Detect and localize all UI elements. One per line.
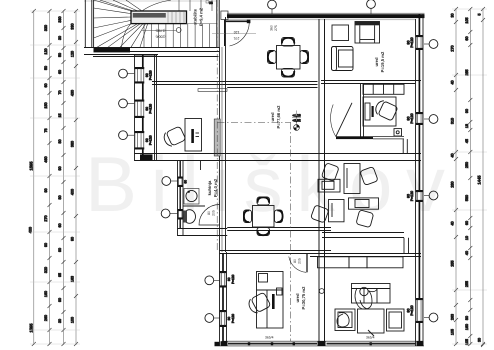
- svg-text:90: 90: [58, 248, 62, 252]
- svg-text:(1780): (1780): [156, 29, 166, 33]
- svg-text:P=120: P=120: [410, 191, 414, 201]
- svg-text:P=120: P=120: [231, 314, 235, 324]
- svg-text:40: 40: [451, 80, 455, 84]
- svg-text:95: 95: [58, 273, 62, 277]
- svg-text:40: 40: [451, 153, 455, 157]
- svg-text:P=77,66 m2: P=77,66 m2: [276, 105, 281, 129]
- svg-text:80: 80: [58, 139, 62, 143]
- svg-text:163: 163: [71, 276, 75, 282]
- svg-text:285: 285: [465, 69, 469, 75]
- svg-text:120: 120: [71, 51, 75, 57]
- svg-text:kuhinja: kuhinja: [207, 180, 212, 195]
- svg-text:50: 50: [44, 66, 48, 70]
- svg-text:P=19,5 m2: P=19,5 m2: [380, 51, 385, 72]
- svg-text:60: 60: [58, 70, 62, 74]
- svg-text:P=120: P=120: [410, 37, 414, 47]
- svg-text:263: 263: [451, 314, 455, 320]
- svg-text:60: 60: [465, 36, 469, 40]
- svg-text:08: 08: [209, 1, 213, 5]
- svg-text:90: 90: [71, 237, 75, 241]
- svg-text:105: 105: [465, 17, 469, 23]
- svg-text:P=120: P=120: [410, 305, 414, 315]
- svg-text:360: 360: [270, 25, 274, 31]
- svg-text:330: 330: [71, 23, 75, 29]
- svg-text:250: 250: [465, 162, 469, 168]
- svg-text:60: 60: [44, 83, 48, 87]
- svg-text:1445: 1445: [477, 175, 482, 185]
- svg-text:30: 30: [58, 36, 62, 40]
- svg-text:90: 90: [58, 166, 62, 170]
- svg-text:380: 380: [71, 141, 75, 147]
- svg-text:30: 30: [478, 338, 482, 342]
- svg-text:330: 330: [44, 25, 48, 31]
- svg-text:15: 15: [58, 113, 62, 117]
- svg-text:275: 275: [234, 36, 240, 40]
- svg-text:150: 150: [44, 102, 48, 108]
- svg-text:365/4: 365/4: [366, 336, 375, 340]
- svg-text:+2,92: +2,92: [292, 119, 301, 123]
- svg-text:105: 105: [451, 329, 455, 335]
- svg-text:50: 50: [58, 53, 62, 57]
- svg-text:60: 60: [58, 223, 62, 227]
- svg-text:5: 5: [478, 13, 482, 15]
- svg-text:160: 160: [44, 291, 48, 297]
- svg-text:P=120: P=120: [149, 135, 153, 145]
- svg-text:275: 275: [274, 25, 278, 31]
- svg-text:400: 400: [71, 189, 75, 195]
- svg-text:120: 120: [234, 30, 240, 34]
- svg-text:90: 90: [44, 243, 48, 247]
- svg-text:430: 430: [71, 90, 75, 96]
- svg-text:205: 205: [212, 210, 216, 216]
- svg-text:1595: 1595: [29, 161, 34, 171]
- svg-text:460: 460: [44, 156, 48, 162]
- svg-text:120: 120: [44, 48, 48, 54]
- svg-text:P=4,0 m2: P=4,0 m2: [213, 178, 218, 197]
- svg-text:40: 40: [451, 221, 455, 225]
- svg-text:40: 40: [465, 251, 469, 255]
- svg-text:310: 310: [451, 118, 455, 124]
- svg-text:P=120: P=120: [410, 113, 414, 123]
- svg-text:stubište: stubište: [193, 8, 198, 25]
- svg-text:1595: 1595: [29, 323, 34, 333]
- svg-text:60: 60: [184, 180, 188, 184]
- svg-text:+1,28: +1,28: [292, 113, 301, 117]
- svg-text:60: 60: [465, 221, 469, 225]
- svg-text:260: 260: [44, 315, 48, 321]
- svg-text:80: 80: [207, 211, 211, 215]
- svg-text:18: 18: [465, 124, 469, 128]
- svg-text:280: 280: [451, 181, 455, 187]
- svg-text:100: 100: [71, 317, 75, 323]
- svg-text:330: 330: [58, 16, 62, 22]
- svg-text:270: 270: [451, 45, 455, 51]
- svg-text:80: 80: [465, 316, 469, 320]
- svg-text:255: 255: [451, 260, 455, 266]
- svg-text:ured: ured: [295, 293, 300, 303]
- svg-text:10: 10: [465, 236, 469, 240]
- svg-text:P=120: P=120: [149, 70, 153, 80]
- svg-text:P=120: P=120: [149, 104, 153, 114]
- svg-text:(2004): (2004): [156, 35, 166, 39]
- svg-text:45: 45: [465, 139, 469, 143]
- svg-text:P=120: P=120: [231, 274, 235, 284]
- svg-text:78: 78: [44, 128, 48, 132]
- svg-text:270: 270: [44, 215, 48, 221]
- svg-text:ured: ured: [374, 57, 379, 67]
- svg-text:160: 160: [465, 324, 469, 330]
- svg-text:90: 90: [44, 188, 48, 192]
- svg-text:80: 80: [293, 259, 297, 263]
- svg-text:90: 90: [58, 298, 62, 302]
- svg-text:365/4: 365/4: [265, 336, 274, 340]
- svg-text:320: 320: [44, 267, 48, 273]
- svg-text:205: 205: [298, 258, 302, 264]
- svg-text:30: 30: [451, 13, 455, 17]
- svg-text:80: 80: [58, 195, 62, 199]
- svg-text:P=30,75 m2: P=30,75 m2: [301, 286, 306, 310]
- svg-text:ured: ured: [270, 112, 275, 122]
- svg-text:P=9,4 m2: P=9,4 m2: [199, 7, 204, 26]
- svg-text:90: 90: [465, 109, 469, 113]
- svg-text:580: 580: [465, 195, 469, 201]
- svg-text:255: 255: [465, 281, 469, 287]
- svg-text:30: 30: [58, 319, 62, 323]
- svg-text:70: 70: [58, 90, 62, 94]
